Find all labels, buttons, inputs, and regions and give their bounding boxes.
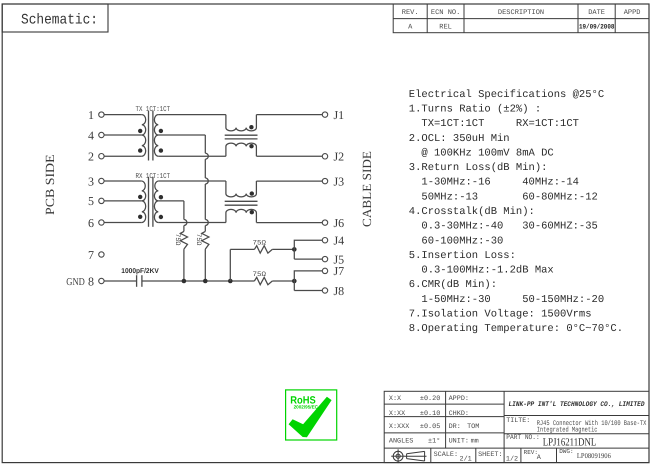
- wire choke to J1: [256, 114, 322, 116]
- svg-text:5: 5: [88, 194, 94, 208]
- svg-text:1.Turns Ratio (±2%) :: 1.Turns Ratio (±2%) :: [409, 104, 541, 116]
- svg-text:Electrical Specifications @25°: Electrical Specifications @25°C: [409, 89, 604, 101]
- pin 3 terminal: [99, 178, 104, 183]
- svg-text:5.Insertion Loss:: 5.Insertion Loss:: [409, 250, 516, 262]
- transformer T1 phase dots: [138, 129, 142, 133]
- wire choke to J3: [256, 180, 322, 182]
- svg-text:CHKD:: CHKD:: [449, 410, 469, 418]
- svg-text:J1: J1: [334, 108, 345, 122]
- svg-text:Integrated Magnetic: Integrated Magnetic: [537, 426, 598, 435]
- projection symbol: [391, 449, 426, 463]
- terminal J5: [322, 256, 327, 261]
- svg-text:GND: GND: [66, 277, 85, 288]
- svg-text:J8: J8: [334, 284, 345, 298]
- pin 2 terminal: [99, 154, 104, 159]
- wire to J4: [294, 240, 322, 259]
- svg-text:@ 100KHz 100mV 8mA DC: @ 100KHz 100mV 8mA DC: [409, 147, 554, 159]
- choke L2 bottom winding: [226, 209, 257, 222]
- electrical specifications text block: [409, 89, 623, 335]
- svg-text:2002/95/EC: 2002/95/EC: [294, 404, 319, 409]
- pin 5 terminal: [99, 198, 104, 203]
- svg-text:75Ω: 75Ω: [253, 271, 267, 279]
- svg-text:2.OCL: 350uH Min: 2.OCL: 350uH Min: [409, 133, 510, 145]
- resistor 75R (RX center tap): [180, 231, 187, 249]
- wire pin 2 to transformer: [104, 155, 142, 157]
- svg-text:±1°: ±1°: [428, 438, 440, 446]
- svg-text:2: 2: [88, 150, 94, 164]
- svg-text:±0.10: ±0.10: [420, 410, 440, 418]
- terminal J1: [322, 112, 327, 117]
- svg-text:TOM: TOM: [467, 423, 479, 431]
- svg-text:DESCRIPTION: DESCRIPTION: [498, 9, 544, 17]
- wire T1 center tap vertical down (node CT1): [204, 135, 206, 153]
- wire CT1 resistor to GND bus: [204, 249, 206, 281]
- resistor 75R (J7/J8) on GND bus: [254, 277, 272, 284]
- terminal J7: [322, 268, 327, 273]
- wire choke to J6: [256, 222, 322, 224]
- wire T1 secondary bottom to choke L1: [158, 155, 226, 157]
- RoHS checkmark: [289, 397, 332, 437]
- wire branch up from GND bus: [229, 249, 231, 281]
- svg-text:LPJ16211DNL: LPJ16211DNL: [543, 437, 597, 449]
- transformer T1 (TX) primary winding: [142, 115, 146, 135]
- Schematic title box: [2, 4, 108, 32]
- choke L1 bottom winding: [226, 143, 257, 156]
- wire T2 secondary top to choke L2: [158, 180, 226, 182]
- svg-text:1/2: 1/2: [506, 456, 518, 464]
- wire pin 6 to transformer: [104, 222, 142, 224]
- wire resistor to J4/J5 junction: [272, 248, 294, 250]
- svg-text:DWG:: DWG:: [559, 448, 573, 455]
- wire T1 center tap: [158, 134, 205, 136]
- title block table lines: [384, 391, 649, 462]
- wire pin 3 to transformer: [104, 180, 142, 182]
- transformer T2 phase dots: [138, 195, 142, 199]
- transformer T2 core: [148, 177, 150, 227]
- pin 4 terminal: [99, 132, 104, 137]
- wire to J5: [294, 258, 322, 260]
- svg-text:±0.05: ±0.05: [420, 423, 440, 431]
- svg-text:DR:: DR:: [449, 423, 461, 431]
- svg-text:4.Crosstalk(dB Min):: 4.Crosstalk(dB Min):: [409, 206, 535, 218]
- wire pin 5 to transformer: [104, 200, 142, 202]
- svg-text:REV.: REV.: [402, 9, 419, 17]
- svg-text:8.Operating Temperature: 0°C~7: 8.Operating Temperature: 0°C~70°C.: [409, 323, 623, 335]
- resistor 75R (TX center tap): [202, 231, 209, 249]
- svg-text:J6: J6: [334, 216, 345, 230]
- svg-text:J7: J7: [334, 264, 345, 278]
- svg-text:0.3-30MHz:-40 30-60MHZ:-35: 0.3-30MHz:-40 30-60MHZ:-35: [409, 221, 598, 233]
- pin 6 terminal: [99, 220, 104, 225]
- wire choke to J2: [256, 155, 322, 157]
- wire T2 center tap vertical down (node CT2): [183, 201, 185, 220]
- svg-text:7: 7: [88, 248, 94, 262]
- svg-text:1: 1: [88, 108, 94, 122]
- choke L1 top winding: [226, 115, 257, 131]
- choke L2 core: [225, 200, 258, 202]
- wire CT2 resistor to GND bus: [183, 249, 185, 281]
- wire to J7: [294, 271, 322, 291]
- svg-text:LINK-PP INT'L TECHNOLOGY CO.,: LINK-PP INT'L TECHNOLOGY CO., LIMITED: [509, 400, 646, 409]
- choke L2 phase dots: [250, 191, 254, 195]
- svg-text:1-30MHz:-16 40MHz:-14: 1-30MHz:-16 40MHz:-14: [409, 177, 579, 189]
- pin 7 terminal: [99, 252, 104, 257]
- svg-text:8: 8: [88, 274, 94, 288]
- svg-text:SCALE:: SCALE:: [434, 451, 458, 459]
- svg-text:1000pF/2KV: 1000pF/2KV: [121, 267, 159, 275]
- svg-text:3.Return Loss(dB Min):: 3.Return Loss(dB Min):: [409, 162, 548, 174]
- svg-text:1-50MHz:-30 50-150MHz:-20: 1-50MHz:-30 50-150MHz:-20: [409, 294, 604, 306]
- svg-text:6.CMR(dB Min):: 6.CMR(dB Min):: [409, 279, 497, 291]
- transformer T1 core: [148, 111, 150, 161]
- svg-text:ANGLES: ANGLES: [389, 438, 413, 446]
- svg-text:J4: J4: [334, 234, 345, 248]
- wire T1 secondary top to choke L1: [158, 114, 226, 116]
- terminal J3: [322, 178, 327, 183]
- svg-text:50MHz:-13 60-80MHz:-12: 50MHz:-13 60-80MHz:-12: [409, 191, 598, 203]
- svg-text:J3: J3: [334, 174, 345, 188]
- svg-text:SHEET:: SHEET:: [478, 451, 502, 459]
- wire hop CT2 over RX bottom wire: [184, 220, 187, 226]
- terminal J4: [322, 238, 327, 243]
- wire T2 center tap: [158, 200, 184, 202]
- svg-text:6: 6: [88, 216, 94, 230]
- wire T2 secondary bottom to choke L2: [158, 222, 226, 224]
- svg-text:60-100MHz:-30: 60-100MHz:-30: [409, 235, 504, 247]
- RoHS logo box: [286, 390, 337, 440]
- terminal J8: [322, 288, 327, 293]
- choke L1 core: [225, 134, 258, 136]
- pin 1 terminal: [99, 112, 104, 117]
- revision table: [393, 4, 649, 33]
- transformer T2 (RX) primary winding: [142, 181, 146, 201]
- terminal J6: [322, 220, 327, 225]
- svg-text:PCB SIDE: PCB SIDE: [43, 154, 57, 215]
- capacitor C1 1000pF/2KV: [136, 275, 138, 287]
- svg-text:APPD:: APPD:: [449, 395, 469, 403]
- svg-text:REL: REL: [439, 23, 452, 31]
- terminal J2: [322, 154, 327, 159]
- pin 8 terminal: [99, 278, 104, 283]
- svg-text:3: 3: [88, 174, 94, 188]
- choke L2 top winding: [226, 181, 257, 197]
- svg-text:2/1: 2/1: [460, 456, 472, 464]
- choke L1 phase dots: [249, 125, 253, 129]
- svg-text:mm: mm: [471, 438, 479, 446]
- wire hop CT1 over RX bottom wire: [205, 220, 208, 226]
- wire to J8: [294, 290, 322, 292]
- svg-text:LP08091906: LP08091906: [577, 452, 611, 460]
- svg-text:CABLE SIDE: CABLE SIDE: [360, 151, 374, 227]
- wire resistor to J7/J8 junction: [272, 280, 294, 282]
- junction CT2/GND: [182, 279, 187, 284]
- wire pin 4 to transformer: [104, 134, 142, 136]
- svg-text:75Ω: 75Ω: [253, 239, 267, 247]
- svg-text:75Ω: 75Ω: [173, 233, 181, 245]
- transformer T1 secondary winding: [154, 115, 158, 135]
- svg-text:TILTE:: TILTE:: [506, 417, 530, 425]
- junction J4 branch/GND: [228, 279, 233, 284]
- svg-text:4: 4: [88, 128, 94, 142]
- svg-text:0.3-100MHz:-1.2dB Max: 0.3-100MHz:-1.2dB Max: [409, 265, 554, 277]
- wire GND bus: [142, 280, 255, 282]
- svg-text:PART NO.:: PART NO.:: [506, 434, 539, 442]
- svg-text:APPD: APPD: [624, 9, 641, 17]
- svg-text:X:X: X:X: [389, 395, 401, 403]
- junction J7/J8: [292, 279, 297, 284]
- junction J4/J5: [292, 247, 297, 252]
- wire pin 8 to capacitor: [104, 280, 137, 282]
- junction CT1/GND: [203, 279, 208, 284]
- svg-text:ECN NO.: ECN NO.: [431, 9, 460, 17]
- svg-text:±0.20: ±0.20: [420, 395, 440, 403]
- wire hop CT1 over RX top wire: [205, 178, 208, 184]
- svg-text:X:XX: X:XX: [389, 410, 405, 418]
- svg-text:DATE: DATE: [588, 9, 605, 17]
- wire hop CT1 over TX bottom wire: [205, 153, 208, 159]
- transformer T2 secondary winding: [154, 181, 158, 201]
- svg-text:TX=1CT:1CT RX=1CT:1CT: TX=1CT:1CT RX=1CT:1CT: [409, 118, 579, 130]
- svg-text:X:XXX: X:XXX: [389, 423, 409, 431]
- svg-text:19/09/2008: 19/09/2008: [579, 24, 615, 32]
- svg-text:J2: J2: [334, 150, 345, 164]
- resistor 75R (J4/J5): [254, 246, 272, 253]
- svg-text:7.Isolation Voltage: 1500Vrms: 7.Isolation Voltage: 1500Vrms: [409, 309, 592, 321]
- wire pin 1 to transformer: [104, 114, 142, 116]
- svg-text:Schematic:: Schematic:: [21, 13, 98, 29]
- svg-text:UNIT:: UNIT:: [449, 438, 469, 446]
- svg-text:75Ω: 75Ω: [194, 233, 202, 245]
